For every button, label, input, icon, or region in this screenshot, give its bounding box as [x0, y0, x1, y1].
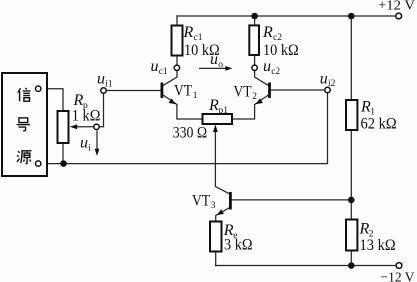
svg-text:i: i — [88, 144, 91, 154]
wire R2 bottom to -12V rail — [350, 251, 352, 266]
junction dot Rc2/rail — [251, 13, 258, 20]
annotation arrow ui (down) — [95, 131, 100, 157]
wire uc2 to VT2 collector — [255, 71, 269, 86]
wire ui2 to VT2 base — [271, 89, 325, 91]
svg-text:u: u — [80, 135, 88, 152]
号 — [17, 118, 30, 131]
wire R1 bottom to R2 top — [350, 130, 352, 220]
terminal source bottom — [36, 161, 41, 166]
wire Rc1 top — [176, 16, 178, 26]
terminal uc1 — [174, 65, 179, 70]
transistor VT3 — [216, 192, 230, 215]
wire VT2 emitter to Rp1 right — [232, 105, 255, 120]
terminal source top — [36, 86, 41, 91]
wire VT3 collector to Rp1 wiper — [215, 131, 229, 194]
resistor R1 — [346, 100, 357, 130]
terminal ui1 — [101, 88, 106, 93]
svg-text:3: 3 — [211, 201, 216, 211]
junction dot R1/rail — [348, 13, 355, 20]
junction dot VT3 base / divider — [348, 197, 355, 204]
svg-text:i2: i2 — [328, 79, 336, 89]
junction dot R2 / -12V rail — [348, 262, 355, 269]
terminal +12V — [396, 13, 402, 19]
signal source box — [2, 73, 47, 176]
svg-text:u: u — [151, 58, 159, 75]
terminal uc2 — [252, 65, 257, 70]
wire VT3 base — [232, 199, 352, 201]
wire -12V bottom rail — [216, 265, 397, 267]
wire uc1 to VT1 collector — [163, 71, 177, 86]
svg-text:1: 1 — [193, 91, 198, 101]
wire Rc2 top — [254, 16, 256, 25]
wire R1 branch top — [350, 16, 352, 100]
svg-text:u: u — [210, 51, 218, 68]
wire VT1 emitter to Rp1 left — [177, 105, 203, 120]
svg-text:62 kΩ: 62 kΩ — [361, 116, 397, 133]
transistor VT2 — [255, 83, 270, 105]
svg-text:c1: c1 — [159, 67, 168, 77]
resistor R2 — [346, 220, 357, 251]
svg-text:o: o — [218, 60, 223, 70]
resistor Rc2 — [249, 25, 259, 55]
svg-text:3 kΩ: 3 kΩ — [224, 237, 253, 254]
svg-text:1 kΩ: 1 kΩ — [72, 108, 101, 125]
transistor VT1 — [162, 83, 177, 105]
wire Rp wiper to ui1 — [99, 93, 103, 127]
svg-text:u: u — [97, 71, 105, 88]
svg-text:+12 V: +12 V — [378, 0, 415, 13]
svg-text:13 kΩ: 13 kΩ — [360, 237, 396, 254]
信 — [18, 88, 31, 101]
svg-text:−12 V: −12 V — [381, 270, 415, 282]
wire Rc1 bottom to uc1 — [176, 56, 178, 66]
terminal wiper ui — [94, 124, 99, 129]
potentiometer Rp1 body — [203, 114, 233, 124]
wire source top to Rp — [41, 89, 63, 111]
svg-text:p1: p1 — [219, 106, 229, 116]
wire input bottom rail — [41, 93, 328, 164]
terminal -12V — [396, 263, 402, 269]
wire Re bottom — [215, 252, 217, 266]
源 — [17, 151, 32, 164]
resistor Re — [210, 222, 222, 252]
svg-text:c2: c2 — [271, 67, 280, 77]
svg-text:u: u — [263, 58, 271, 75]
svg-text:i1: i1 — [105, 80, 113, 90]
wire top +12V rail — [177, 15, 396, 17]
svg-text:R: R — [208, 97, 219, 114]
Rp wiper arrow — [70, 124, 94, 129]
resistor Rc1 — [172, 26, 183, 56]
wire Rc2 bottom to uc2 — [254, 55, 256, 65]
wire Rp bottom — [62, 143, 64, 164]
svg-text:2: 2 — [252, 92, 257, 102]
svg-text:10 kΩ: 10 kΩ — [263, 42, 299, 59]
annotation arrow uo (right) — [199, 66, 233, 71]
wire VT3 emitter to Re — [216, 208, 230, 222]
svg-text:330 Ω: 330 Ω — [173, 125, 208, 142]
svg-text:R: R — [183, 24, 194, 41]
svg-text:u: u — [320, 71, 328, 88]
Rp1 wiper arrow — [213, 125, 218, 132]
svg-text:VT: VT — [174, 83, 192, 100]
svg-text:R: R — [73, 92, 84, 109]
svg-text:VT: VT — [234, 84, 252, 101]
wire ui1 to VT1 base — [106, 90, 161, 92]
svg-text:R: R — [262, 24, 273, 41]
terminal ui2 — [325, 87, 330, 92]
resistor Rp — [58, 111, 69, 143]
junction dot Rp bottom — [60, 160, 67, 167]
svg-text:VT: VT — [192, 193, 210, 210]
